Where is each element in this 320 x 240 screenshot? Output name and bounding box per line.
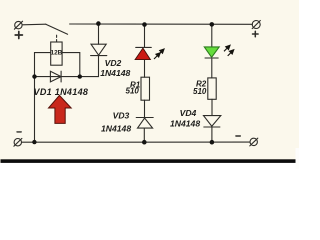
white strip bottom: [0, 163, 299, 170]
node bottom rail left: [32, 140, 36, 144]
diode VD2: [91, 44, 107, 55]
node top rail / HL2: [210, 22, 215, 27]
terminal X2 - (bottom right): [250, 138, 258, 146]
minus sign (bottom right): [236, 135, 240, 137]
terminal X2 + (top right): [252, 21, 260, 29]
wire bottom rail: [22, 141, 250, 143]
node top rail / HL1: [142, 22, 147, 27]
node VD1 right / coil: [78, 74, 82, 78]
paper background: [0, 0, 299, 169]
node top rail / VD2: [96, 21, 101, 26]
LED HL1 emission arrows: [154, 49, 164, 59]
resistor R1: [141, 77, 150, 100]
resistor R2: [208, 78, 216, 99]
plus sign (top right): [253, 31, 259, 37]
label 12В (relay): [51, 49, 63, 57]
svg-text:VD2: VD2: [105, 58, 122, 68]
wire VD1 row: [35, 76, 99, 78]
LED HL1 (red) triangle: [135, 48, 150, 60]
svg-text:510: 510: [126, 87, 140, 96]
LED HL2 (green) triangle: [204, 47, 219, 57]
wire VD4 to bottom rail: [211, 127, 213, 142]
wire top rail: [70, 23, 253, 25]
diode VD3: [136, 118, 153, 129]
wire R1 to VD3: [144, 100, 146, 117]
wire R2 to VD4: [211, 99, 213, 115]
switch SA1 blade: [46, 24, 68, 34]
wire LED to R2: [211, 58, 213, 78]
svg-text:VD3: VD3: [113, 110, 130, 120]
svg-text:VD4: VD4: [180, 108, 197, 118]
red polarity arrow: [49, 95, 72, 123]
plus sign (top left): [15, 32, 22, 39]
wire red LED branch: [144, 24, 146, 47]
LED HL1 cathode bar: [136, 46, 152, 48]
diode VD4: [204, 116, 221, 127]
wire LED to R1: [144, 60, 146, 77]
svg-text:1N4148: 1N4148: [101, 123, 131, 133]
minus sign (bottom left): [17, 131, 21, 133]
LED HL2 emission arrows: [224, 45, 234, 56]
left rail wire: [34, 77, 36, 143]
terminal X1 + (top left): [14, 21, 22, 29]
svg-text:VD1 1N4148: VD1 1N4148: [34, 87, 89, 97]
svg-text:1N4148: 1N4148: [170, 118, 200, 128]
wire terminal to switch: [22, 23, 46, 26]
relay coil K1: [51, 42, 62, 65]
svg-text:1N4148: 1N4148: [100, 68, 130, 78]
LED HL2 cathode bar: [205, 57, 219, 59]
terminal X1 - (bottom left): [14, 138, 22, 146]
wire VD3 to bottom rail: [143, 128, 145, 142]
coil wire right: [62, 53, 80, 77]
wire green LED branch: [211, 24, 213, 46]
wire VD2 branch: [98, 24, 100, 44]
svg-text:12В: 12В: [51, 50, 63, 57]
coil wire left: [35, 53, 51, 77]
diode VD1: [50, 71, 61, 82]
node bottom rail / VD3: [142, 140, 147, 145]
svg-text:510: 510: [193, 87, 207, 96]
scan border bar (bottom): [1, 159, 296, 163]
mechanical link (dashed) to relay: [56, 35, 58, 42]
wire VD2 to VD1 row: [98, 56, 100, 77]
node bottom rail / VD4: [210, 140, 215, 145]
node VD1 left: [32, 74, 36, 78]
